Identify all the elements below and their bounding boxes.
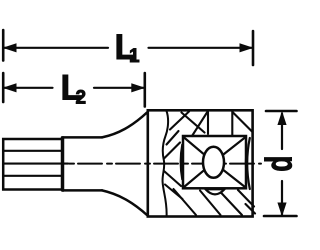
dimension L2 arrow left [4,84,16,92]
bell curve bottom [102,190,148,215]
drive square diagonal top-left [184,138,214,163]
dimension L1 line left segment [4,47,108,49]
label L2 [61,68,87,108]
dimension L1 extension tick right [252,31,255,65]
adapter neck top edge [62,136,102,139]
centerline (dash-dot axis) [69,163,261,165]
knurl break wavy line [163,111,169,216]
dimension L1 line right segment [149,47,253,49]
hex flat line upper [3,150,62,152]
dimension d arrow down [278,203,286,215]
dimension L1 arrow left [4,44,16,52]
dimension L2 line left segment [4,87,53,89]
bell curve top [102,112,148,137]
hex bit end face [62,137,65,190]
svg-text:d: d [258,156,299,172]
dimension d line lower segment [281,181,283,215]
dimension d extension tick bottom [264,215,297,218]
drive square left edge lens [180,144,183,180]
hex flat line lower [3,175,62,177]
svg-text:1: 1 [129,46,140,67]
label d (rotated) [258,156,299,172]
dimension L2 extension tick left [2,73,5,102]
adapter neck bottom edge [62,189,102,192]
label L1 [115,28,141,67]
knurl hatch bottom strip [174,189,256,215]
drive square diagonal bottom-right [214,162,246,187]
dimension L1 arrow right [240,44,252,52]
dimension d arrow up [278,113,286,125]
drive square outline [183,136,246,188]
bore wall arc right [247,138,250,189]
drive hole ellipse [203,147,224,178]
hex bit shank outline [3,139,62,190]
drive square right edge lens [245,150,247,175]
knurl hatch left strip [164,131,183,199]
drive square diagonal top-right [214,138,246,163]
dimension d line upper segment [281,114,283,150]
hex flat line middle (centerline inside bit) [3,163,68,165]
svg-text:2: 2 [76,88,87,109]
dimension L2 line right segment [94,87,144,89]
dimension L2 arrow right [132,84,144,92]
dimension L1 extension tick left [2,30,5,61]
dimension d extension tick top [266,110,297,113]
drive hole bottom arc [206,189,225,194]
socket body outline [148,110,253,216]
drive square diagonal bottom-left [184,162,214,187]
dimension L2 extension tick right [144,73,147,107]
knurl hatch top strip [170,111,252,136]
